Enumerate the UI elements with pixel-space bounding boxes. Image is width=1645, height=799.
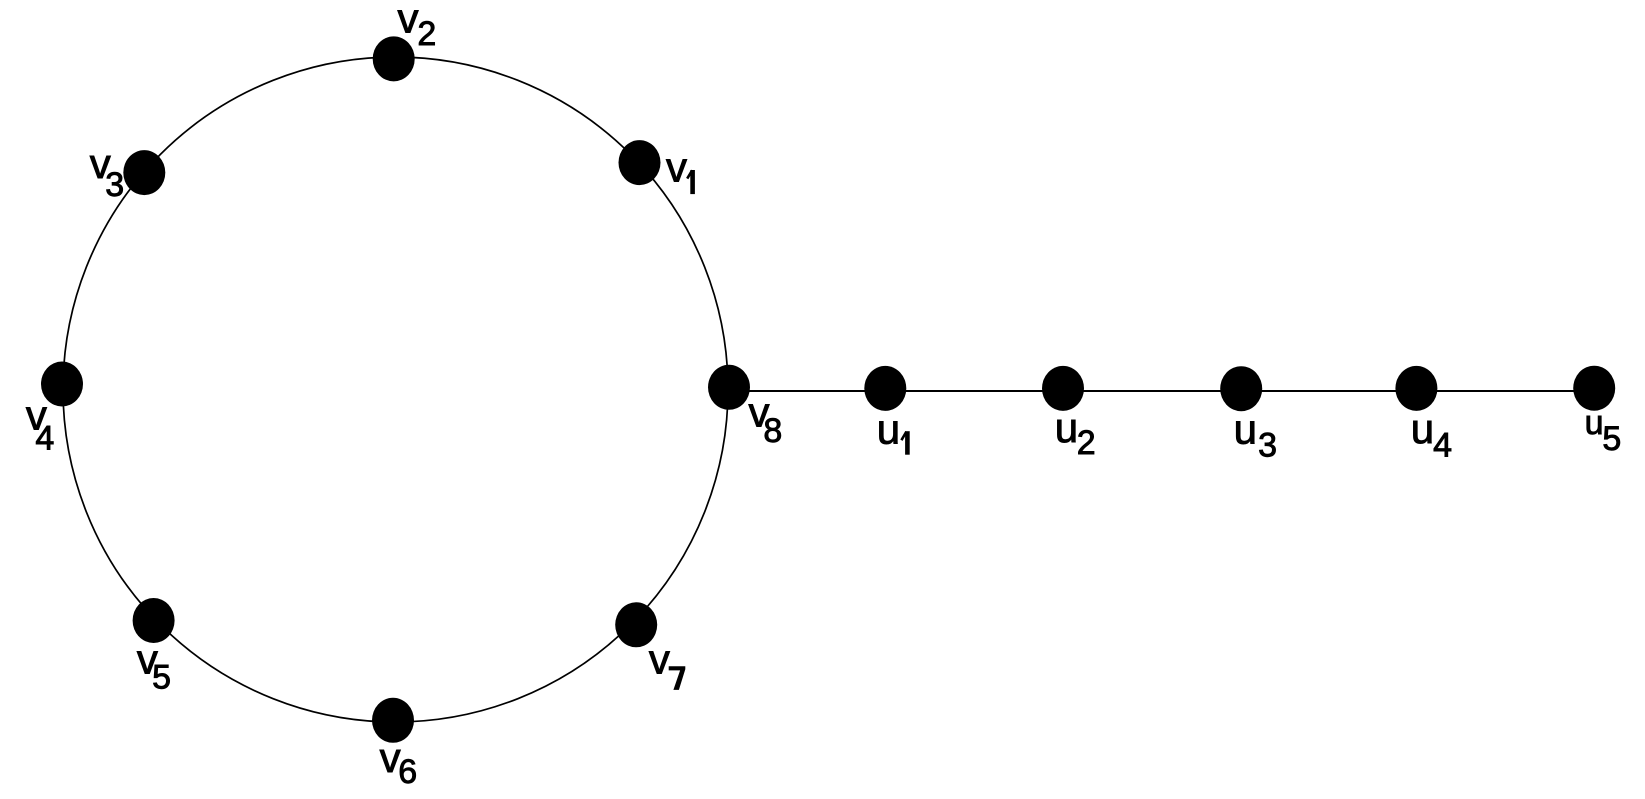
svg-text:5: 5 xyxy=(1602,420,1621,458)
svg-text:v: v xyxy=(398,0,419,42)
vertex u4 xyxy=(1395,366,1437,411)
svg-text:6: 6 xyxy=(398,753,417,791)
svg-text:v: v xyxy=(666,144,687,191)
svg-text:u: u xyxy=(1585,404,1604,442)
label v7 xyxy=(649,636,685,690)
label v1 xyxy=(666,144,693,194)
svg-text:2: 2 xyxy=(417,15,436,53)
vertex u5 xyxy=(1573,366,1615,411)
svg-text:4: 4 xyxy=(35,420,54,458)
label u4 xyxy=(1411,405,1452,465)
svg-text:8: 8 xyxy=(763,412,782,450)
label u5 xyxy=(1585,404,1622,458)
label u2 xyxy=(1055,404,1096,462)
svg-text:3: 3 xyxy=(1258,426,1277,464)
vertex u1 xyxy=(864,366,906,411)
vertex v6 xyxy=(372,698,414,743)
svg-text:v: v xyxy=(649,636,670,683)
vertex u3 xyxy=(1220,366,1262,411)
vertex v8 xyxy=(708,365,750,410)
svg-text:u: u xyxy=(1055,404,1078,451)
vertex v1 xyxy=(619,140,661,185)
svg-text:5: 5 xyxy=(152,659,171,697)
label v8 xyxy=(749,389,783,450)
svg-text:4: 4 xyxy=(1433,427,1452,465)
label v3 xyxy=(90,140,125,204)
label v5 xyxy=(137,636,171,697)
svg-text:u: u xyxy=(1411,405,1434,452)
vertex u2 xyxy=(1042,366,1084,411)
svg-text:2: 2 xyxy=(1077,424,1096,462)
vertex v5 xyxy=(133,598,175,643)
label v2 xyxy=(398,0,437,53)
svg-text:3: 3 xyxy=(105,166,124,204)
svg-text:u: u xyxy=(877,405,900,452)
vertex v4 xyxy=(41,362,83,407)
cycle C8: circle through v1..v8 xyxy=(63,57,728,722)
svg-text:u: u xyxy=(1234,405,1257,452)
label v4 xyxy=(26,391,54,457)
vertex v3 xyxy=(123,150,165,195)
path edges v8-u1-u2-u3-u4-u5 xyxy=(729,390,1594,392)
vertex v7 xyxy=(615,602,657,647)
label v6 xyxy=(380,734,418,791)
label u3 xyxy=(1234,405,1277,464)
vertex v2 xyxy=(373,36,415,81)
label u1 xyxy=(877,405,908,454)
